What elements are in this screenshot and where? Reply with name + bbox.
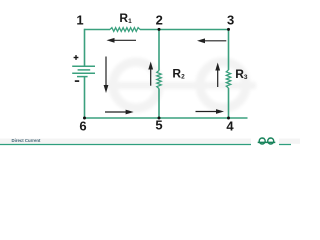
svg-text:Direct Current: Direct Current (12, 138, 41, 143)
resistor R2 (157, 71, 161, 89)
wire top (node1-node3) (85, 29, 229, 31)
svg-text:2: 2 (156, 13, 163, 28)
battery V1 plates (72, 66, 95, 76)
node 2 junction dot (158, 28, 161, 31)
wire R2 branch vertical (node2-node5) (158, 29, 160, 118)
watermark bar (106, 82, 256, 89)
resistor R1 (110, 28, 140, 32)
battery minus sign (75, 80, 79, 82)
wire bottom (node6-node4 and stub right) (85, 117, 248, 119)
current arrow up beside R3 (215, 63, 220, 88)
footer rule line (0, 144, 291, 146)
current arrow down beside battery (104, 57, 109, 94)
current arrow right between node6 and node5 (105, 110, 134, 115)
current arrow left under R1 (107, 38, 137, 43)
current arrow right between node5 and node4 (196, 109, 225, 114)
node 5 junction dot (158, 117, 161, 120)
svg-text:1: 1 (76, 13, 83, 28)
watermark left ring (113, 62, 159, 108)
node 4 junction dot (227, 117, 230, 120)
svg-text:5: 5 (155, 118, 162, 133)
svg-text:6: 6 (79, 119, 86, 134)
node 3 junction dot (227, 28, 230, 31)
current arrow left between node2 and node3 (197, 38, 226, 43)
watermark right ring (200, 62, 246, 108)
node 6 junction dot (83, 117, 86, 120)
resistor R3 (226, 70, 230, 88)
current arrow up beside R2 (148, 62, 153, 86)
GfG logo (258, 138, 276, 144)
wire left vertical (node1-battery-node6) (84, 29, 86, 118)
wire R3 branch vertical (node3-node4) (228, 29, 230, 118)
battery plus sign (74, 55, 79, 60)
svg-text:3: 3 (227, 13, 234, 28)
footer band (0, 139, 300, 144)
svg-text:4: 4 (226, 119, 234, 134)
